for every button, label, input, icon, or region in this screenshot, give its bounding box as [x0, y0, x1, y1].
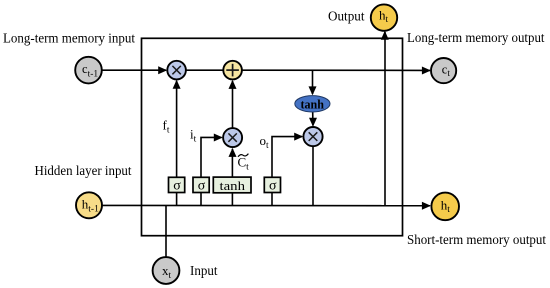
svg-text:σ: σ [269, 178, 277, 193]
sigma gate box 3 (output) [264, 177, 280, 193]
svg-text:ft: ft [163, 118, 170, 136]
svg-text:Ct: Ct [238, 155, 250, 173]
svg-text:Long-term memory output: Long-term memory output [407, 31, 545, 46]
svg-text:σ: σ [173, 178, 181, 193]
svg-text:ot: ot [260, 133, 270, 151]
wire c-line segment 2 (multiply to plus) [186, 69, 224, 71]
svg-text:σ: σ [198, 178, 206, 193]
svg-text:Long-term memory input: Long-term memory input [3, 32, 135, 47]
multiply op left [167, 61, 186, 80]
svg-text:tanh: tanh [301, 97, 325, 111]
label C~_t (candidate) [238, 154, 250, 173]
multiply op right [303, 127, 322, 146]
svg-text:tanh: tanh [220, 178, 246, 193]
wire input gate stem below sigma2 [200, 193, 202, 206]
wire forget gate sigma1 up to multiply left [173, 80, 181, 178]
label f_t [163, 118, 170, 136]
tanh gate box (candidate) [213, 177, 251, 193]
svg-text:it: it [190, 127, 197, 145]
node h_t top (output) [371, 4, 397, 30]
wire forget gate stem below sigma1 [176, 193, 178, 206]
wire c-line segment 3 (plus to c_t) [242, 67, 431, 75]
label Output [328, 10, 365, 25]
svg-text:Hidden layer input: Hidden layer input [35, 164, 132, 179]
label Short-term memory output [407, 233, 546, 248]
label Long-term memory output [407, 31, 545, 46]
node x_t [153, 257, 180, 284]
wire c-line segment 1 (c_{t-1} to multiply) [101, 66, 167, 74]
wire down from c-line to tanh ellipse [309, 70, 317, 95]
wire candidate stem below tanh box [231, 193, 233, 205]
wire branch up to output h_t [381, 31, 389, 206]
wire multiply mid up to plus [229, 80, 237, 128]
svg-text:Short-term memory output: Short-term memory output [407, 233, 546, 248]
wire output gate stem below sigma3 [271, 193, 273, 206]
wire input gate sigma2 up and right to multiply mid [201, 134, 223, 178]
multiply op mid [223, 128, 242, 147]
svg-text:Output: Output [328, 10, 365, 25]
wire output gate sigma3 up and right to multiply right [272, 133, 303, 178]
wire tanh box up to multiply mid [229, 148, 237, 177]
wire multiply right down to h-line [312, 146, 314, 205]
cell boundary box [142, 38, 403, 235]
label Hidden layer input [35, 164, 132, 179]
wire tanh ellipse to multiply right [309, 112, 317, 127]
wire h-line (h_{t-1} to h_t) [101, 202, 431, 210]
plus op [223, 61, 242, 80]
label i_t [190, 127, 197, 145]
sigma gate box 2 (input) [193, 177, 209, 193]
wire x_t input up to h-line [165, 205, 167, 257]
svg-text:Input: Input [190, 264, 218, 279]
node c_t [431, 58, 456, 83]
label o_t [260, 133, 270, 151]
label Long-term memory input [3, 32, 135, 47]
node h_t right [431, 193, 459, 221]
node h_{t-1} [76, 192, 102, 218]
tanh activation ellipse [295, 96, 330, 112]
label Input [190, 264, 218, 279]
sigma gate box 1 (forget) [169, 177, 185, 193]
node c_{t-1} [75, 57, 102, 84]
